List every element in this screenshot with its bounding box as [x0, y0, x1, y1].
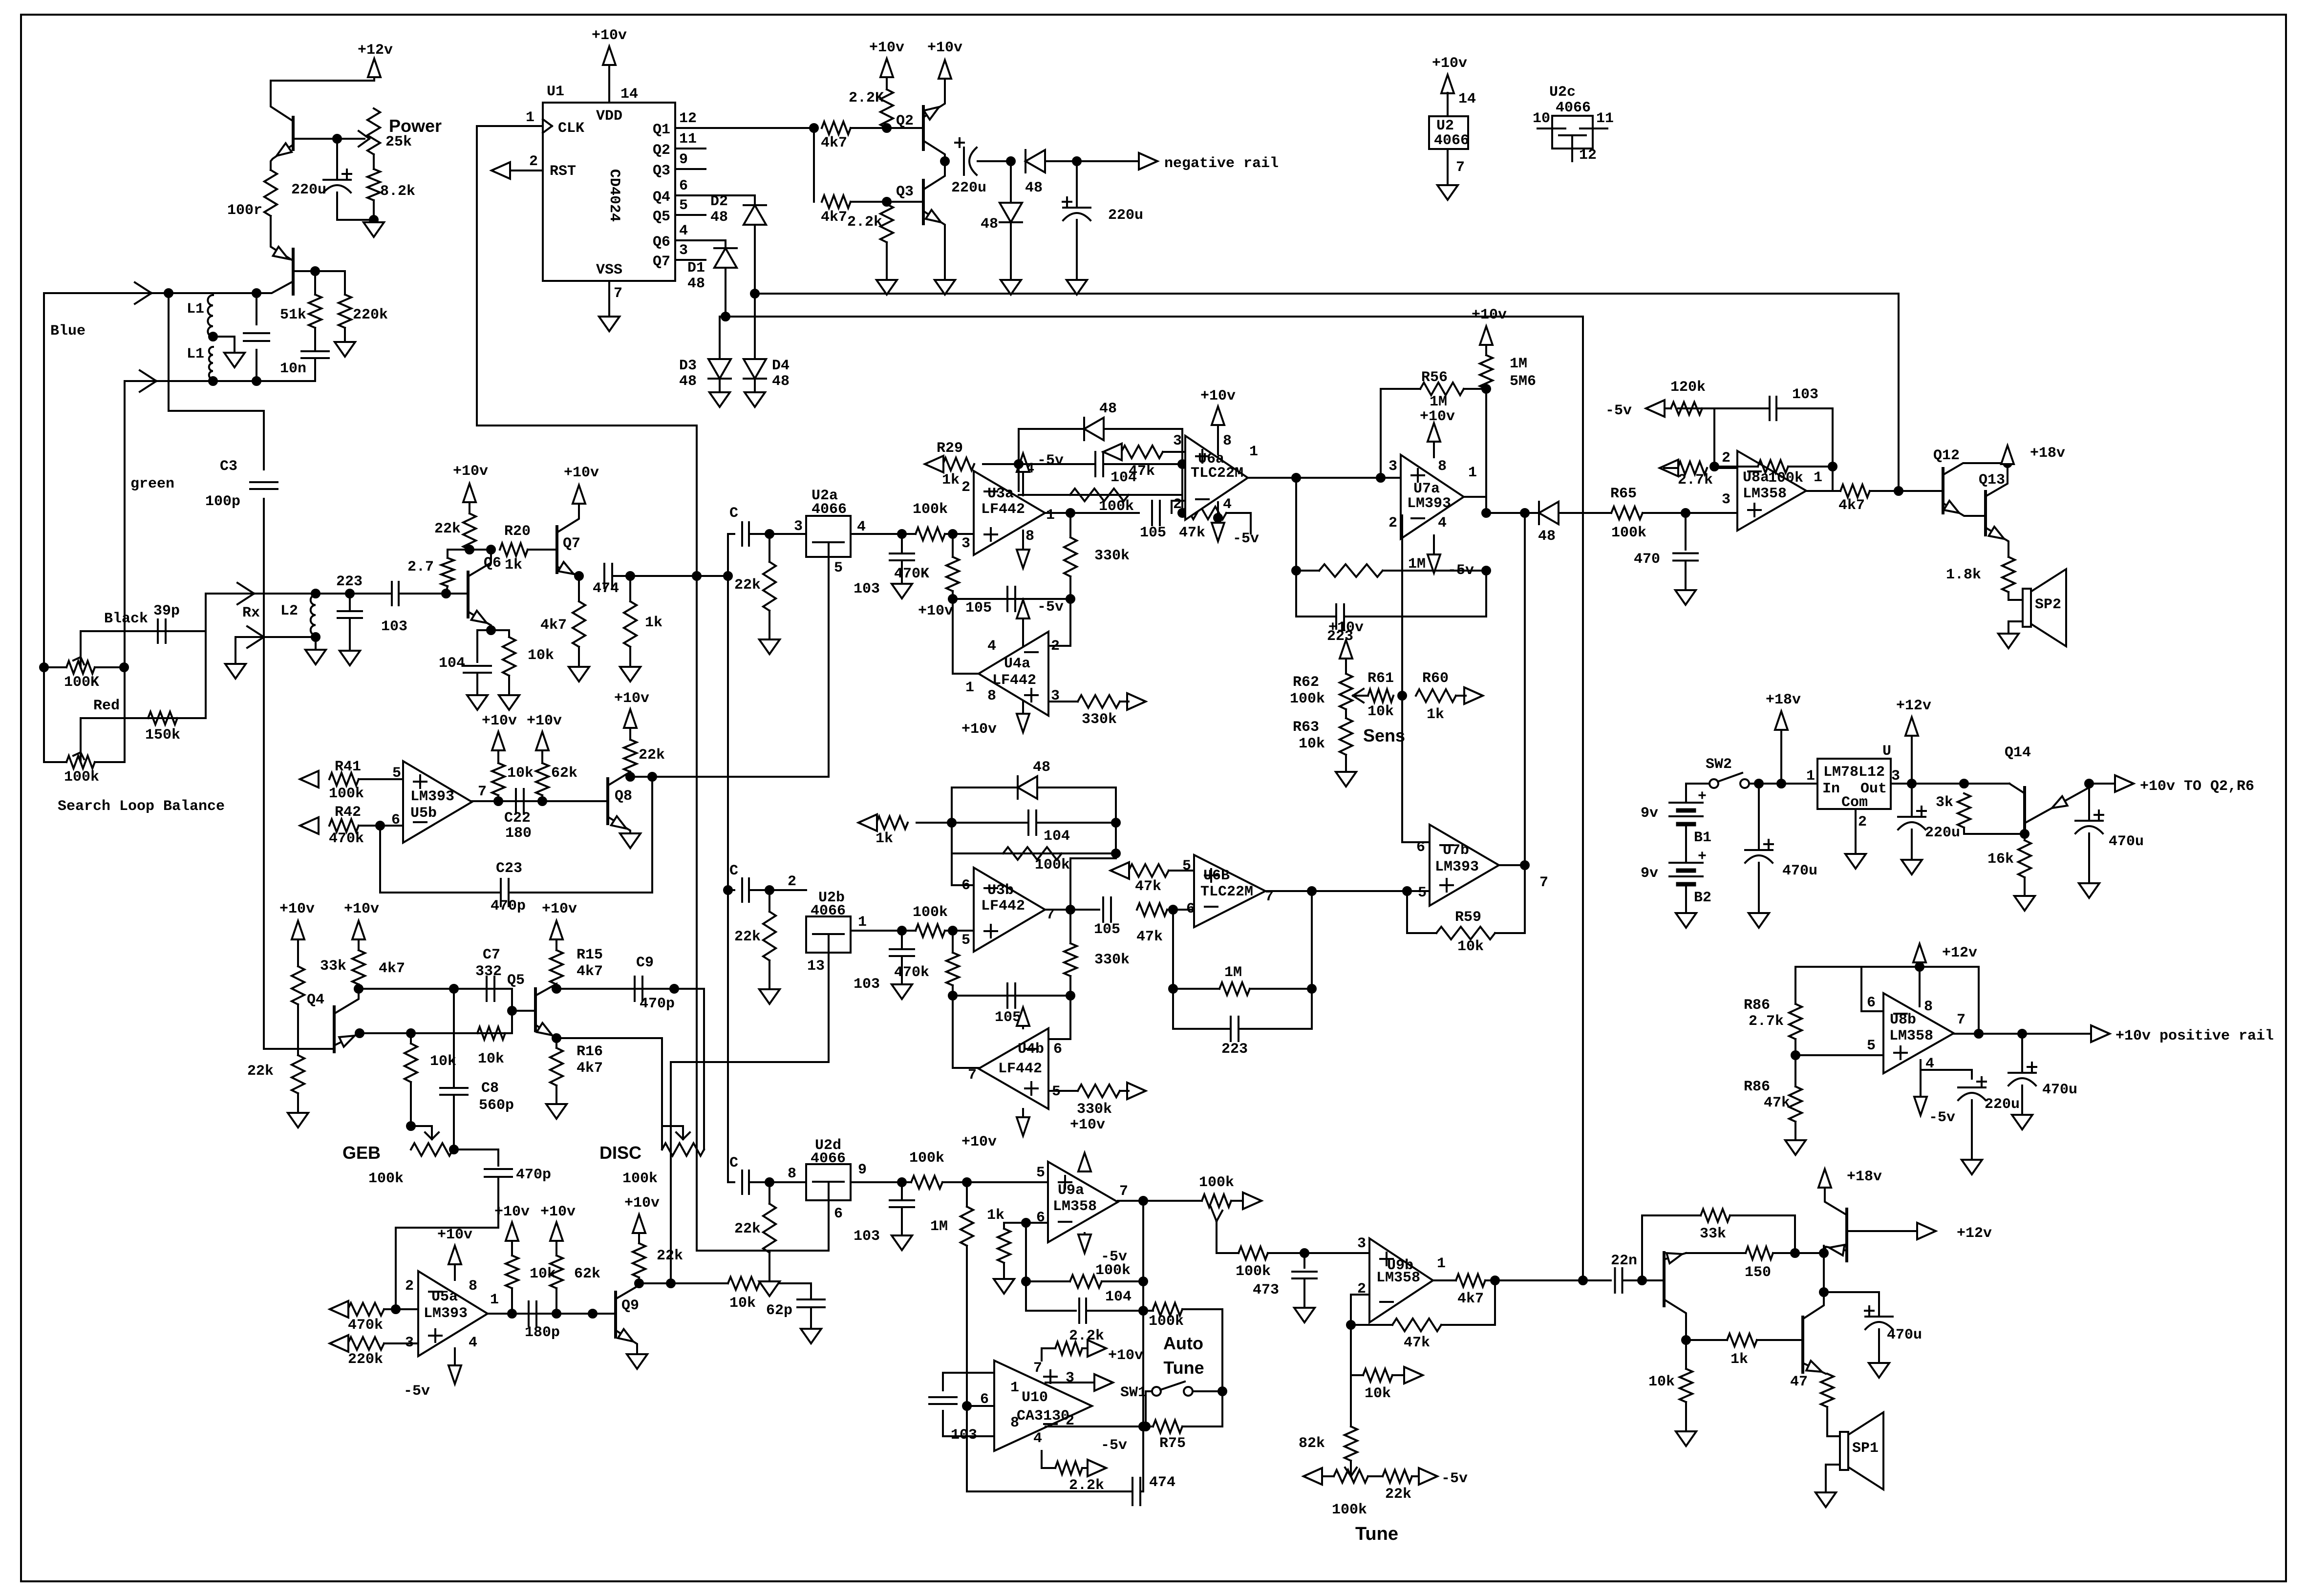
resistor R42 470k — [329, 819, 359, 832]
resistor 2.7 — [441, 558, 454, 586]
label LM358 U9b — [1376, 1270, 1420, 1286]
label 220u reg — [1925, 825, 1960, 841]
svg-text:6: 6 — [834, 1206, 843, 1222]
svg-text:2: 2 — [1388, 515, 1397, 532]
label 220u u8b — [1985, 1096, 2020, 1113]
label +12v out — [1957, 1225, 1992, 1242]
resistor 470K row1 — [946, 557, 959, 591]
capacitor 103 row2 — [890, 949, 914, 956]
wire 1M col — [966, 1182, 968, 1207]
svg-text:In: In — [1822, 781, 1840, 797]
svg-text:33k: 33k — [1700, 1226, 1726, 1242]
svg-text:48: 48 — [1025, 180, 1043, 196]
arrow +10v positive — [2091, 1025, 2110, 1042]
svg-text:R65: R65 — [1610, 486, 1637, 502]
svg-text:Q3: Q3 — [896, 184, 914, 200]
node sw2 470u — [1755, 780, 1763, 787]
resistor 10k q6 — [503, 637, 515, 676]
label 1k R60 — [1427, 706, 1444, 723]
svg-text:DISC: DISC — [599, 1143, 641, 1163]
wire 100k to U3a — [945, 533, 974, 535]
wire R56 rail — [1381, 388, 1420, 390]
wire diode 48 hang — [1010, 161, 1012, 203]
wire Q4 emitter rail — [360, 1032, 512, 1034]
wire Q2osc collector to tank — [256, 281, 293, 293]
label +10v U6a — [1200, 388, 1236, 404]
label 10k q4q5 — [478, 1051, 504, 1067]
svg-text:+10v: +10v — [1328, 619, 1364, 636]
label 14 U2 — [1458, 91, 1476, 107]
svg-text:4066: 4066 — [811, 903, 846, 919]
wire W1 long — [755, 294, 1899, 491]
IC U1 CD4024 — [543, 103, 675, 281]
wire r15 stub — [555, 984, 557, 989]
resistor 2.7k u8a — [1678, 462, 1707, 474]
wire u6a 223 rail — [1296, 616, 1336, 617]
wire CLK net — [477, 126, 697, 1251]
label 22k row3 — [734, 1221, 761, 1237]
svg-text:U5a: U5a — [431, 1289, 458, 1305]
op-amp U6a TLC22M — [1185, 436, 1248, 520]
label 2 U4a — [1051, 638, 1060, 655]
ground 103 row1 — [892, 584, 912, 598]
label Blue — [50, 323, 85, 340]
svg-text:+10v: +10v — [1472, 307, 1507, 323]
wire 330k to 105rail r2 — [1069, 976, 1071, 996]
label 103 u10 — [951, 1427, 977, 1444]
label 3 reg — [1891, 768, 1900, 785]
label 1 U8a — [1814, 469, 1822, 486]
wire 10k out gnd — [1685, 1402, 1687, 1430]
wire U7b plus — [1407, 890, 1430, 892]
wire 22n out — [1623, 1279, 1664, 1281]
resistor 33k out — [1701, 1209, 1730, 1222]
node u9a out — [1139, 1197, 1147, 1205]
label C9 — [636, 955, 654, 971]
svg-text:+10v: +10v — [527, 713, 562, 729]
node negrail cap — [1073, 157, 1081, 165]
label 220u pump — [951, 180, 986, 196]
label +10v u9a — [1070, 1117, 1105, 1133]
label LF442 U3b — [981, 898, 1025, 915]
svg-text:100k: 100k — [64, 769, 99, 786]
svg-text:22k: 22k — [639, 747, 665, 764]
resistor 4k7 top — [822, 122, 851, 134]
resistor 330k u4a — [1078, 695, 1120, 708]
emitter arrow Q6 — [471, 611, 487, 623]
resistor 470k u5a — [348, 1303, 384, 1316]
label 10k R63 — [1299, 736, 1325, 752]
svg-text:LM358: LM358 — [1743, 486, 1787, 502]
label Q7 — [563, 535, 580, 552]
wire 470K to fb — [952, 591, 954, 599]
resistor 2.2k pulldown — [880, 204, 893, 242]
node sens out — [1398, 692, 1406, 700]
svg-text:U7b: U7b — [1443, 842, 1469, 859]
svg-text:+10v: +10v — [1432, 55, 1467, 72]
node Q3 base/2.2k — [883, 198, 891, 206]
svg-text:51k: 51k — [280, 307, 306, 323]
wire u6b 223 right — [1311, 989, 1313, 1029]
label R59 — [1455, 909, 1481, 926]
resistor R63 10k — [1340, 718, 1352, 755]
node +12v tap — [1908, 780, 1916, 787]
label +10v U4a bot — [961, 721, 997, 738]
capacitor 105 fb row1 — [1007, 587, 1015, 611]
node u6a fb right — [1482, 567, 1490, 575]
svg-text:U7a: U7a — [1413, 481, 1440, 497]
label 3 U4a — [1051, 688, 1060, 704]
op-amp U10 CA3130 — [994, 1361, 1092, 1451]
resistor R59 10k — [1436, 927, 1495, 939]
label 3 U5a — [405, 1335, 414, 1351]
wire 470 hang — [1685, 513, 1687, 550]
label U2c — [1549, 84, 1576, 101]
label negative rail — [1164, 155, 1279, 172]
resistor 47k u6b — [1129, 864, 1169, 877]
label R56 — [1421, 369, 1448, 386]
wire Q5 collector — [535, 984, 556, 996]
wire u8b pin4 branch — [1921, 1070, 1972, 1079]
emitter arrow Q2osc — [273, 247, 288, 259]
svg-text:470p: 470p — [491, 898, 526, 915]
label 7 U4b — [968, 1067, 977, 1084]
wire q17 emitter — [1803, 1363, 1826, 1374]
wire u9a out to pot — [1143, 1200, 1202, 1202]
node U7b plus — [1403, 887, 1411, 895]
label 22k row2 — [734, 929, 761, 945]
wire Q1osc emitter — [271, 145, 293, 170]
wire C3 down bus — [263, 499, 265, 1049]
svg-text:220k: 220k — [353, 307, 388, 323]
svg-text:8: 8 — [469, 1278, 477, 1295]
power +10v 10k u5a — [506, 1222, 518, 1241]
wire u8b out — [1954, 1033, 2091, 1035]
ground 1k u9a — [994, 1279, 1014, 1294]
label U8b — [1890, 1012, 1916, 1028]
speaker SP1 — [1840, 1412, 1883, 1490]
transistor Q15 — [1663, 1253, 1666, 1306]
label 3 U3a — [961, 535, 970, 552]
wire u6a 223 rail2 — [1344, 616, 1486, 617]
svg-text:5: 5 — [1418, 885, 1427, 901]
resistor 1M 5M6 — [1480, 355, 1493, 389]
wire 330k u4b arrow — [1120, 1090, 1129, 1092]
potentiometer 100K upper — [66, 661, 95, 674]
svg-text:+10v: +10v — [927, 40, 962, 56]
wire q14 collector — [2009, 784, 2025, 793]
wire U6B to U7b — [1312, 890, 1407, 892]
wire r75 right — [1182, 1391, 1222, 1426]
svg-text:CA3130: CA3130 — [1017, 1408, 1069, 1425]
svg-text:R56: R56 — [1421, 369, 1448, 386]
svg-text:1: 1 — [1806, 768, 1815, 785]
resistor 62k u5b — [536, 763, 549, 795]
label 5 U6B — [1182, 858, 1191, 874]
node tank bottom — [253, 377, 260, 385]
wire fb top — [1019, 428, 1182, 430]
node W2 start — [722, 313, 729, 320]
wire c7 to q5 — [495, 989, 512, 1033]
wire C2 to U2b — [749, 889, 806, 891]
label 4066 U2 — [1434, 132, 1469, 149]
wire U7a out — [1464, 497, 1486, 513]
label 4 U7a — [1438, 515, 1447, 532]
label 100k GEB — [368, 1170, 404, 1187]
wire tune pot right — [1368, 1475, 1383, 1477]
wire 1k col — [1004, 1223, 1048, 1229]
node u8b out b — [2018, 1030, 2026, 1038]
svg-text:10k: 10k — [1648, 1374, 1675, 1390]
inductor L1 upper — [208, 295, 213, 337]
node Q1osc base/220u — [333, 135, 341, 143]
label +12v — [358, 42, 393, 59]
svg-text:220u: 220u — [1985, 1096, 2020, 1113]
svg-text:100k: 100k — [1035, 857, 1070, 873]
wire q15 collector — [1664, 1299, 1686, 1340]
node u8a fb left — [1710, 463, 1718, 470]
label Q6 — [484, 555, 501, 572]
label Q5 — [653, 209, 670, 225]
wire 10k u5a top — [511, 1240, 513, 1256]
resistor 150k — [148, 712, 177, 724]
power +10v q7 — [573, 485, 585, 504]
svg-text:1M: 1M — [1430, 394, 1447, 410]
label 4 U4a — [987, 638, 996, 655]
transistor Q2 — [922, 106, 925, 149]
svg-text:+18v: +18v — [2030, 445, 2065, 462]
label 4 U10 — [1033, 1430, 1042, 1447]
wire 474 rail2 — [1140, 1426, 1143, 1491]
label 33k — [320, 958, 346, 975]
wire 22k r2 hang — [769, 890, 770, 912]
wire C1 to U2a — [749, 533, 806, 535]
wire 4k7 to q12 — [1870, 490, 1943, 492]
resistor 1k out — [1727, 1334, 1757, 1346]
node fb left row2 — [949, 992, 957, 1000]
label +10v u10 — [1108, 1347, 1143, 1364]
label Tune — [1355, 1524, 1398, 1544]
IC U2b 4066 — [806, 916, 851, 953]
label 5 U3b — [961, 932, 970, 949]
label Q8 — [615, 788, 632, 805]
wire 104 rail — [1026, 1281, 1076, 1311]
wire U4a minus — [1048, 599, 1070, 646]
wire green rail — [125, 380, 315, 382]
ground SP1 — [1816, 1492, 1836, 1507]
node u10 pin2 r75 — [1139, 1423, 1147, 1430]
node 103 row3 — [898, 1178, 906, 1186]
label 4k7 R16 — [577, 1060, 603, 1077]
wire 470k hang r2 — [952, 931, 954, 953]
svg-text:1: 1 — [1437, 1256, 1446, 1272]
wire U7a pin4 — [1433, 535, 1435, 572]
svg-text:R59: R59 — [1455, 909, 1481, 926]
svg-text:LF442: LF442 — [992, 672, 1036, 689]
label 10k u5b — [507, 765, 534, 782]
wire c8 bot — [453, 1095, 455, 1149]
svg-text:22k: 22k — [734, 577, 761, 594]
label 82k — [1299, 1435, 1325, 1452]
node blue bus 100K — [40, 663, 48, 671]
node L2 top — [312, 590, 320, 597]
label +10v q8 — [614, 690, 649, 707]
label 13 U2b — [807, 958, 825, 975]
arrow 120k — [1646, 400, 1665, 417]
svg-text:1k: 1k — [505, 557, 522, 574]
svg-text:C: C — [729, 863, 738, 879]
resistor 22k q6 — [463, 513, 476, 550]
svg-text:470p: 470p — [640, 996, 675, 1012]
U2b inner switch — [813, 934, 844, 953]
diode 48 row2 — [1018, 776, 1037, 799]
wire D4 hang — [754, 294, 756, 360]
ground 470u bat — [1749, 913, 1769, 928]
resistor 330k u4b — [1078, 1085, 1120, 1097]
wire u6a 223 left — [1295, 571, 1297, 617]
svg-text:+10v: +10v — [279, 901, 315, 917]
switch SW2 lever — [1718, 773, 1742, 782]
wire U4b plus to 330k — [1048, 1090, 1078, 1092]
wire 105 rail row1 — [953, 598, 1070, 600]
svg-text:220u: 220u — [291, 182, 326, 198]
svg-text:330k: 330k — [1077, 1101, 1112, 1118]
wire c23 to right — [509, 777, 652, 893]
wire Q13 collector — [1986, 463, 2008, 496]
label +10v U1 — [592, 27, 627, 44]
power -5v U3a — [1017, 453, 1029, 472]
wire collector Q1osc — [271, 81, 293, 121]
pot wiper arrow 100K upper — [73, 657, 84, 667]
label 1k out — [1730, 1351, 1748, 1368]
label CLK — [558, 120, 584, 137]
op-amp U5b LM393 — [403, 761, 472, 843]
resistor R75 — [1153, 1420, 1182, 1433]
label +10v TO Q2,R6 — [2140, 778, 2254, 795]
svg-text:4066: 4066 — [811, 1150, 846, 1167]
arrow 220k u5a — [330, 1335, 348, 1352]
wire u6a fb rail — [1296, 570, 1319, 572]
label 4 U3a — [1025, 461, 1034, 477]
wire U2c pin10 — [1538, 128, 1561, 129]
svg-text:U6B: U6B — [1203, 868, 1230, 884]
ground pump diode — [1001, 280, 1021, 295]
wire 16k stub — [2024, 834, 2026, 840]
label 3 U2a-ext — [794, 518, 803, 535]
resistor R41 100k — [329, 773, 359, 786]
label R20 — [504, 523, 531, 540]
label 10k q6 — [528, 647, 554, 664]
resistor 100k row3 — [911, 1176, 942, 1189]
power +18v q13 — [2001, 446, 2014, 464]
arrow R60 — [1464, 687, 1483, 704]
svg-text:C9: C9 — [636, 955, 654, 971]
label 10k row3 — [729, 1295, 756, 1312]
svg-text:4066: 4066 — [1434, 132, 1469, 149]
node R56/5M6 — [1482, 385, 1490, 393]
wire 2.2k gnd — [886, 242, 888, 278]
svg-text:Q9: Q9 — [621, 1298, 639, 1314]
label 22k q8 — [639, 747, 665, 764]
capacitor C9 470p — [635, 977, 642, 1001]
wire left bias — [813, 128, 815, 202]
wire U9b minus — [1351, 1295, 1369, 1375]
resistor 4k7 u9b — [1456, 1274, 1485, 1287]
wire u8a fb mid — [1714, 466, 1758, 468]
wire 220u reg top — [1911, 784, 1913, 817]
svg-text:100k: 100k — [909, 1150, 944, 1167]
U2a inner switch — [813, 542, 844, 557]
label Q9 — [621, 1298, 639, 1314]
svg-text:3: 3 — [1891, 768, 1900, 785]
label 105 fb row2 — [995, 1009, 1021, 1026]
label B2 — [1694, 890, 1711, 906]
svg-text:1.8k: 1.8k — [1946, 567, 1981, 583]
wire 22k q9 stub — [638, 1277, 640, 1283]
label D2 — [710, 193, 728, 210]
wire 474 out — [612, 575, 728, 577]
wire u10 pin6 — [967, 1405, 994, 1407]
label 7 — [614, 285, 622, 302]
label 22k row1 — [734, 577, 761, 594]
wire u8a fb top — [1714, 407, 1770, 409]
label Q4 — [653, 189, 670, 206]
label D1 — [687, 260, 705, 277]
label 22k q9 — [657, 1248, 683, 1264]
label U6a — [1198, 451, 1224, 468]
wire U5a out — [488, 1313, 616, 1315]
wire 10k gnd — [508, 676, 510, 694]
wire 22k tune arr — [1412, 1475, 1419, 1477]
arrow +10v to q2 — [2115, 775, 2134, 792]
resistor 10k u5a — [506, 1256, 518, 1288]
svg-text:2.2K: 2.2K — [849, 90, 884, 106]
label LM393 U5b — [410, 788, 454, 805]
wire 22k r1 gnd — [769, 611, 770, 638]
resistor 3k — [1958, 793, 1970, 828]
label 330k row1 — [1094, 548, 1130, 564]
capacitor 104 row2 — [1028, 810, 1036, 835]
transistor Q17 — [1801, 1317, 1804, 1372]
wire u8a fb top2 — [1777, 408, 1833, 467]
svg-text:4: 4 — [1438, 515, 1447, 532]
transistor Q7 — [555, 527, 558, 573]
wire Rx bottom gnd — [235, 637, 236, 662]
wire Q3 emitter — [923, 211, 945, 278]
svg-text:3: 3 — [1357, 1235, 1366, 1252]
svg-text:25k: 25k — [385, 134, 412, 150]
battery B1 cell a — [1669, 803, 1703, 810]
emitter arrow Q14 — [2052, 796, 2068, 808]
svg-text:+: + — [1698, 849, 1707, 865]
capacitor 39p — [158, 619, 166, 643]
wire Q2 pin11 stub — [675, 148, 705, 149]
wire 1k gnd — [1003, 1263, 1005, 1277]
svg-text:330k: 330k — [1082, 711, 1117, 728]
svg-text:48: 48 — [981, 216, 998, 233]
svg-text:+10v: +10v — [1200, 388, 1236, 404]
wire at100k — [1143, 1310, 1153, 1312]
label B1 — [1694, 830, 1711, 846]
svg-text:LM393: LM393 — [1435, 859, 1479, 875]
label 8 U3a — [1025, 528, 1034, 545]
svg-text:1: 1 — [858, 914, 867, 931]
svg-text:+10v: +10v — [540, 1204, 576, 1220]
svg-text:103: 103 — [854, 976, 880, 993]
label 104 row2 — [1044, 828, 1070, 845]
svg-text:-5v: -5v — [1929, 1109, 1955, 1126]
label 100k fb u9a — [1095, 1262, 1131, 1279]
